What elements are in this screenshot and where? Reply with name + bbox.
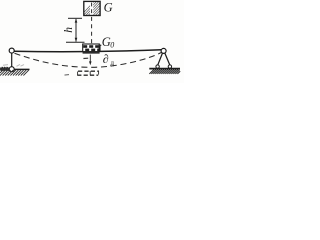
svg-text:д: д bbox=[110, 58, 114, 67]
left support bottom hinge bbox=[9, 67, 14, 72]
static level dash bbox=[83, 57, 88, 59]
dimension h bbox=[66, 18, 85, 42]
load G0 on beam bbox=[83, 44, 102, 52]
beam shadow under load bbox=[83, 52, 100, 54]
weight G (falling block) bbox=[80, 1, 114, 17]
right support rollers bbox=[156, 65, 159, 68]
svg-text:G: G bbox=[104, 0, 113, 14]
scan smudges bbox=[3, 64, 24, 66]
right ground hatch bbox=[149, 69, 180, 74]
left ground line bbox=[0, 68, 9, 70]
stray dash bbox=[65, 74, 70, 77]
left ground hatch bbox=[0, 70, 29, 76]
deflection arrow bbox=[89, 55, 91, 63]
falling centerline (dashed) bbox=[91, 3, 93, 16]
displaced load G0 (dashed outline) bbox=[77, 71, 99, 76]
svg-text:∂: ∂ bbox=[103, 52, 109, 66]
left ground dark patch bbox=[0, 68, 9, 71]
svg-text:h: h bbox=[63, 27, 75, 33]
deflection curve (dashed) bbox=[15, 52, 162, 67]
beam bbox=[14, 50, 162, 52]
right ground line bbox=[149, 68, 180, 70]
left support top hinge bbox=[9, 48, 14, 53]
right support legs bbox=[158, 53, 163, 65]
right support apex hinge bbox=[161, 48, 166, 53]
left support post bbox=[11, 53, 13, 67]
svg-text:0: 0 bbox=[110, 40, 114, 49]
